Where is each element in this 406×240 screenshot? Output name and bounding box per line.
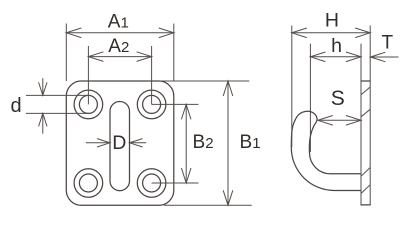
- svg-text:B2: B2: [193, 132, 214, 153]
- svg-text:S: S: [331, 87, 345, 110]
- svg-text:D: D: [112, 132, 126, 154]
- svg-text:T: T: [382, 33, 394, 54]
- svg-text:A2: A2: [108, 36, 129, 57]
- svg-text:h: h: [331, 35, 342, 57]
- svg-text:A1: A1: [108, 12, 129, 33]
- svg-text:H: H: [325, 9, 339, 31]
- svg-text:B1: B1: [240, 132, 261, 153]
- svg-text:d: d: [11, 95, 22, 117]
